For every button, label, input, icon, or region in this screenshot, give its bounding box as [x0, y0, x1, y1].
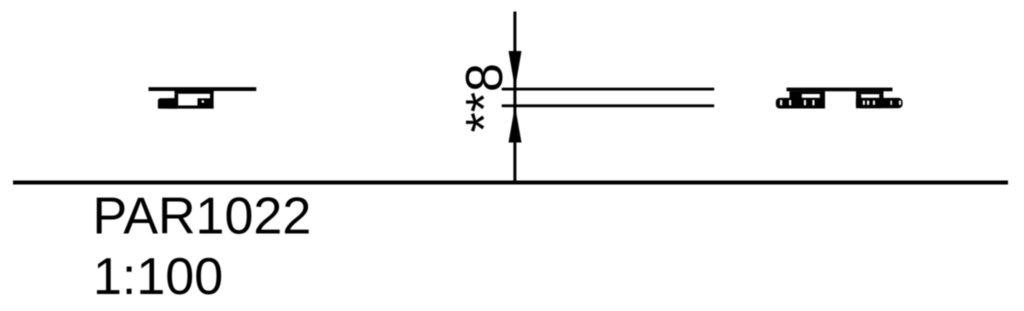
right elem left foot	[776, 98, 825, 109]
right elem right flange outer drop	[879, 94, 883, 98]
left bracket left wall	[175, 94, 179, 109]
left clamp block	[198, 98, 211, 105]
dimension line	[513, 12, 516, 182]
right elem left flange outer drop	[790, 94, 802, 98]
svg-text:1:100: 1:100	[93, 248, 223, 306]
left bracket flange	[175, 91, 214, 94]
arrow up	[509, 106, 522, 143]
right elem right foot slots	[863, 101, 865, 105]
right plank bar	[787, 88, 893, 92]
left clamp hole	[202, 100, 205, 103]
right elem right flange inner drop	[856, 94, 861, 98]
left foot block	[158, 98, 178, 108]
svg-text:PAR1022: PAR1022	[93, 188, 312, 246]
left bottom plate	[158, 106, 214, 109]
plank top line	[502, 88, 715, 91]
right elem left flange inner drop	[820, 94, 825, 98]
left seat plank bar	[149, 87, 257, 91]
arrow down	[509, 51, 522, 89]
svg-text:**8: **8	[456, 63, 514, 132]
plank bottom line	[502, 104, 715, 107]
right elem left flange	[790, 91, 826, 94]
right elem right flange	[856, 91, 884, 94]
left bracket right wall	[210, 91, 214, 109]
right elem right foot	[856, 98, 903, 108]
ground	[13, 181, 1008, 185]
right elem left foot slots	[780, 100, 782, 105]
